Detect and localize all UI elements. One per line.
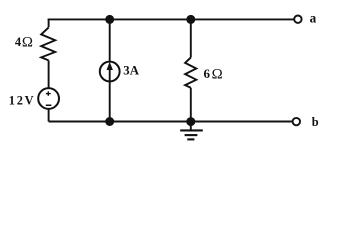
svg-text:b: b bbox=[312, 115, 319, 129]
terminal b circle bbox=[293, 118, 300, 125]
ground bar 1 bbox=[180, 129, 203, 131]
wire left branch top stub bbox=[48, 19, 50, 28]
node junction dot top middle bbox=[105, 15, 114, 24]
svg-text:4: 4 bbox=[15, 35, 22, 49]
svg-text:3A: 3A bbox=[123, 63, 140, 77]
current source I1 arrow shaft bbox=[109, 68, 111, 81]
ground bar 3 bbox=[187, 138, 194, 140]
voltage source V1 minus sign bbox=[46, 105, 52, 107]
node junction dot bottom middle bbox=[105, 117, 114, 126]
resistor R1 4ohm zigzag bbox=[41, 28, 55, 61]
resistor R2 6ohm zigzag bbox=[185, 58, 196, 88]
voltage source V1 plus sign bbox=[46, 93, 51, 94]
wire right branch top bbox=[190, 19, 192, 57]
svg-text:6: 6 bbox=[204, 66, 211, 81]
wire left branch middle bbox=[48, 60, 50, 88]
wire middle branch vertical bbox=[109, 19, 111, 121]
current source I1 arrowhead bbox=[107, 62, 113, 70]
svg-text:Ω: Ω bbox=[212, 67, 223, 83]
current source I1 circle bbox=[100, 62, 120, 82]
terminal a circle bbox=[294, 16, 301, 23]
wire right branch bottom bbox=[190, 88, 192, 122]
svg-text:Ω: Ω bbox=[22, 35, 33, 51]
voltage source V1 circle bbox=[38, 88, 59, 109]
svg-text:a: a bbox=[310, 11, 317, 26]
ground stem bbox=[190, 122, 192, 130]
wire left branch bottom bbox=[48, 109, 50, 122]
svg-text:12V: 12V bbox=[9, 94, 34, 108]
ground bar 2 bbox=[185, 134, 198, 136]
wire top horizontal bbox=[48, 18, 294, 20]
node junction dot top right bbox=[186, 15, 195, 24]
wire bottom horizontal bbox=[49, 121, 292, 123]
node junction dot bottom right (ground node) bbox=[186, 117, 195, 126]
